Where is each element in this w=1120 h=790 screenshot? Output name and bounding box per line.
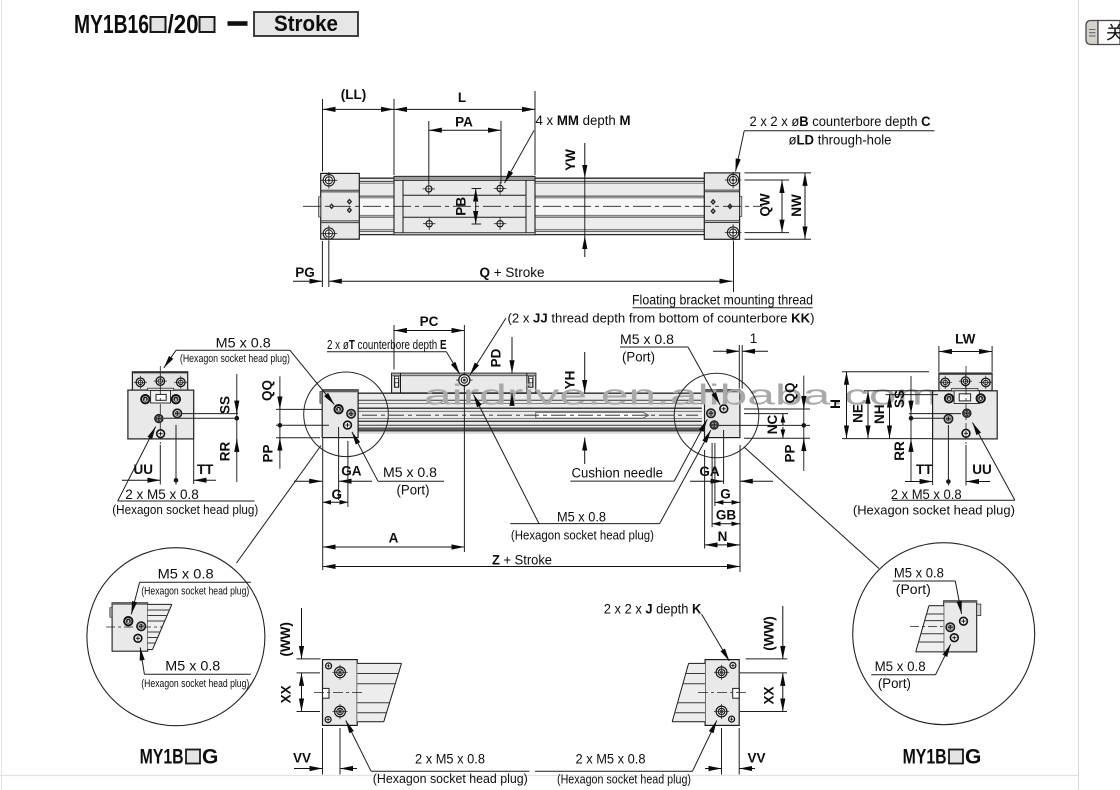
title stroke box xyxy=(254,11,358,36)
dimension H xyxy=(828,372,929,439)
cone line to bottom-right detail xyxy=(744,447,879,569)
front view slide carriage xyxy=(392,373,536,393)
svg-text:PP: PP xyxy=(260,444,275,462)
dimension QW xyxy=(745,180,790,233)
page right separator line xyxy=(1078,0,1080,790)
label 2 x M5 x 0.8 hexagon plug left with leader xyxy=(112,427,258,517)
left cap cushion needle screw xyxy=(347,409,356,418)
dimension VV left xyxy=(293,728,357,775)
dimension PC xyxy=(394,314,464,371)
svg-text:(Hexagon socket head plug): (Hexagon socket head plug) xyxy=(180,353,290,365)
svg-text:Floating bracket mounting thre: Floating bracket mounting thread xyxy=(632,293,813,308)
svg-text:Q + Stroke: Q + Stroke xyxy=(480,265,545,280)
svg-text:L: L xyxy=(458,90,466,105)
dimension PD xyxy=(489,337,512,404)
svg-text:VV: VV xyxy=(747,751,765,766)
svg-text:LW: LW xyxy=(955,332,976,347)
svg-text:M5 x 0.8: M5 x 0.8 xyxy=(165,659,220,674)
left side plug screws row xyxy=(141,395,180,403)
right dimension GB xyxy=(712,443,740,527)
label 2 x M5 x 0.8 hexagon plug right with leader xyxy=(853,423,1015,518)
carriage mounting hole MM top-right xyxy=(494,182,506,194)
right cap cushion needle screw xyxy=(706,409,715,418)
page left edge line xyxy=(1,0,3,790)
svg-text:TT: TT xyxy=(197,462,214,477)
label M5 x 0.8 (Port) left with leader xyxy=(352,432,444,498)
svg-text:GB: GB xyxy=(716,508,737,523)
left side dimension UU TT xyxy=(122,425,216,485)
svg-text:NW: NW xyxy=(789,194,804,217)
left side view body xyxy=(128,388,194,439)
left cap dimension QQ PP stack xyxy=(260,376,329,469)
caption MY1B G right xyxy=(903,746,982,769)
detail circle around left cap xyxy=(304,372,389,457)
svg-text:1: 1 xyxy=(750,331,758,346)
svg-text:PG: PG xyxy=(295,265,315,280)
svg-text:QW: QW xyxy=(758,193,773,217)
detail circle around right cap xyxy=(674,373,759,458)
svg-text:2 x M5 x 0.8: 2 x M5 x 0.8 xyxy=(576,752,646,767)
dimension (LL) xyxy=(323,87,395,109)
bottom-left end view hatch section xyxy=(357,663,401,721)
svg-text:NE: NE xyxy=(851,404,866,423)
extension lines for LL L PA xyxy=(323,91,536,184)
svg-text:Stroke: Stroke xyxy=(274,11,338,36)
right cap dimension QQ NC PP stack xyxy=(719,376,810,471)
svg-text:GA: GA xyxy=(699,464,720,479)
left side carriage screws xyxy=(134,375,188,389)
detail right cap cushion screw xyxy=(946,623,955,632)
right side view centerline xyxy=(965,366,967,444)
svg-text:PA: PA xyxy=(455,115,473,130)
top view right end cap xyxy=(704,173,742,239)
front view left head cap xyxy=(320,390,358,438)
carriage left clamp detail xyxy=(394,376,398,387)
svg-text:G: G xyxy=(332,487,343,502)
dimension LW xyxy=(939,332,992,373)
detail right cap body xyxy=(944,601,981,652)
right cap port screw top xyxy=(720,405,728,413)
svg-text:2 x øT counterbore depth E: 2 x øT counterbore depth E xyxy=(327,337,447,352)
dimension XX left xyxy=(279,673,320,712)
dimension YH xyxy=(563,352,585,464)
left side dimension SS RR stack xyxy=(164,374,239,482)
detail right cap port screw top xyxy=(960,617,968,625)
top view left end cap xyxy=(319,173,360,239)
left side cross screw xyxy=(173,409,182,418)
svg-text:PP: PP xyxy=(783,444,798,462)
left side view carriage section xyxy=(132,372,187,390)
svg-text:(Port): (Port) xyxy=(896,582,931,597)
front view right head cap xyxy=(705,390,743,438)
svg-text:M5 x 0.8: M5 x 0.8 xyxy=(875,659,926,674)
svg-text:TT: TT xyxy=(916,462,933,477)
svg-text:(Port): (Port) xyxy=(622,350,655,365)
watermark xyxy=(424,380,938,412)
bottom-right detail circle xyxy=(853,543,1035,725)
svg-text:QQ: QQ xyxy=(260,380,275,401)
svg-text:(LL): (LL) xyxy=(341,87,366,102)
right side dimension SS RR stack xyxy=(892,376,961,482)
svg-text:(Hexagon socket head plug): (Hexagon socket head plug) xyxy=(141,585,249,597)
svg-text:M5 x 0.8: M5 x 0.8 xyxy=(894,566,944,581)
carriage mounting hole MM top-left xyxy=(423,183,435,195)
detail left cap cushion screw xyxy=(137,622,146,631)
svg-text:2 x 2 x J depth K: 2 x 2 x J depth K xyxy=(604,602,702,617)
label Floating bracket mounting thread xyxy=(632,293,813,308)
front view cylinder tube xyxy=(358,393,702,433)
svg-text:øLD through-hole: øLD through-hole xyxy=(789,133,892,148)
svg-text:SS: SS xyxy=(892,390,907,408)
bottom-right end view screws xyxy=(714,662,736,722)
label oLD through-hole xyxy=(736,131,892,172)
right dimension G xyxy=(715,443,740,506)
svg-text:G: G xyxy=(720,487,731,502)
svg-text:关: 关 xyxy=(1106,23,1120,43)
svg-text:QQ: QQ xyxy=(783,382,798,403)
svg-text:G: G xyxy=(202,746,218,769)
top view slide table carriage xyxy=(394,176,535,234)
detail label M5 x 0.8 plug lower xyxy=(140,648,251,690)
svg-text:N: N xyxy=(718,529,728,544)
svg-text:UU: UU xyxy=(972,462,992,477)
right cap counterbore hole top xyxy=(725,172,742,189)
svg-text:(2 x JJ thread depth from bott: (2 x JJ thread depth from bottom of coun… xyxy=(508,311,815,326)
svg-text:(Hexagon socket head plug): (Hexagon socket head plug) xyxy=(373,771,528,786)
page bottom separator line xyxy=(0,775,1078,777)
svg-text:/20: /20 xyxy=(168,9,199,39)
svg-text:(Port): (Port) xyxy=(878,676,911,691)
label 4 x MM depth M with leader xyxy=(505,113,631,183)
left cap counterbore hole bottom xyxy=(321,225,338,242)
dimension PA xyxy=(429,115,501,131)
label 2 x oT counterbore depth E with leader xyxy=(327,337,460,374)
detail left cap body xyxy=(110,603,148,651)
detail label M5 x 0.8 port upper xyxy=(893,566,962,615)
dimension A xyxy=(323,386,465,570)
svg-text:2 x M5 x 0.8: 2 x M5 x 0.8 xyxy=(415,752,485,767)
svg-text:RR: RR xyxy=(218,442,233,462)
bottom-left end view centerline xyxy=(314,691,364,693)
label 2 x M5 x 0.8 bottom-left with leader xyxy=(346,721,530,786)
right side cross screw xyxy=(944,414,953,423)
svg-text:(WW): (WW) xyxy=(278,622,293,656)
svg-text:(Hexagon socket head plug): (Hexagon socket head plug) xyxy=(112,502,258,517)
svg-text:(Hexagon socket head plug): (Hexagon socket head plug) xyxy=(511,528,654,543)
title model number MY1B16/20 xyxy=(74,9,248,39)
detail right cap hatched tube section xyxy=(910,606,950,652)
svg-text:YH: YH xyxy=(563,371,578,390)
label 2 x JJ thread depth note with leader xyxy=(470,311,815,375)
right cap port holes (diamonds) xyxy=(710,199,732,214)
left cap counterbore hole top xyxy=(321,172,338,189)
cone line to bottom-left detail xyxy=(237,446,322,564)
svg-text:NH: NH xyxy=(872,404,887,424)
svg-text:(WW): (WW) xyxy=(761,616,776,650)
svg-text:H: H xyxy=(828,399,843,409)
dimension VV right xyxy=(705,728,766,775)
svg-text:Cushion needle: Cushion needle xyxy=(572,466,664,481)
right side dimension TT UU xyxy=(905,425,992,486)
label 2 x 2 x J depth K with leader xyxy=(604,602,730,662)
caption MY1B G left xyxy=(140,746,219,769)
svg-text:PB: PB xyxy=(454,197,469,216)
tube slot tapered white band xyxy=(536,412,649,418)
carriage mounting hole MM bottom-right xyxy=(494,218,506,230)
bottom-right end view hatch section xyxy=(672,663,705,721)
label M5 x 0.8 hexagon plug bottom-center with two leaders xyxy=(474,395,711,543)
svg-text:NC: NC xyxy=(765,415,780,435)
svg-text:(Hexagon socket head plug): (Hexagon socket head plug) xyxy=(141,678,249,690)
svg-text:M5 x 0.8: M5 x 0.8 xyxy=(158,567,214,582)
front view center dash-dot line xyxy=(362,414,698,416)
svg-text:MY1B16: MY1B16 xyxy=(74,9,149,39)
right side view carriage section xyxy=(939,373,992,391)
svg-text:MY1B: MY1B xyxy=(903,746,947,769)
left dimension GA xyxy=(294,427,372,500)
dimension YW xyxy=(563,143,585,257)
svg-text:M5 x 0.8: M5 x 0.8 xyxy=(216,336,271,351)
svg-text:2 x 2 x øB counterbore depth C: 2 x 2 x øB counterbore depth C xyxy=(750,114,931,129)
right side dark plug xyxy=(963,409,972,418)
svg-text:MY1B: MY1B xyxy=(140,746,184,769)
right side bottom plug xyxy=(962,429,970,437)
label 2 x 2 x oB counterbore depth C xyxy=(744,114,934,131)
dimension (WW) right xyxy=(746,606,788,659)
svg-text:(Hexagon socket head plug): (Hexagon socket head plug) xyxy=(853,502,1015,517)
left side view centerline xyxy=(159,366,161,444)
svg-text:GA: GA xyxy=(341,464,362,479)
dimension (WW) left xyxy=(278,608,321,659)
svg-text:(Port): (Port) xyxy=(397,483,430,498)
svg-text:2 x M5 x 0.8: 2 x M5 x 0.8 xyxy=(125,487,199,502)
bottom-right end view body xyxy=(705,660,739,726)
left cap port screw xyxy=(344,421,352,429)
right dimension N xyxy=(705,450,740,549)
dimension NE xyxy=(851,391,936,439)
detail left cap port screw xyxy=(134,634,142,642)
right cap port screw bottom xyxy=(710,421,719,430)
bottom-right end view centerline xyxy=(698,691,748,693)
dimension XX right xyxy=(740,673,787,712)
detail right cap port screw bottom xyxy=(950,634,958,642)
dimension L xyxy=(394,90,535,109)
svg-text:XX: XX xyxy=(761,686,776,704)
right side plug screws row xyxy=(945,394,985,402)
detail left cap hatched tube section xyxy=(106,604,172,649)
svg-text:VV: VV xyxy=(293,751,311,766)
detail label M5 x 0.8 plug upper xyxy=(131,567,251,615)
top view center axis dash-dot line xyxy=(303,205,762,207)
svg-text:PC: PC xyxy=(420,314,439,329)
svg-text:YW: YW xyxy=(563,149,578,171)
bottom-left end view body xyxy=(323,660,358,726)
dimension PG xyxy=(293,241,329,287)
dimension PB xyxy=(454,189,482,225)
dimension NW xyxy=(745,173,812,239)
right side carriage screws xyxy=(939,375,993,389)
bottom-left end view screws xyxy=(325,663,348,723)
left side dark plug xyxy=(155,414,164,423)
right side view body xyxy=(933,389,998,439)
browser widget tab top-right xyxy=(1086,21,1120,45)
left side bottom plug xyxy=(157,430,165,438)
dimension NH xyxy=(842,395,938,439)
dimension Z + Stroke xyxy=(323,445,740,572)
svg-text:SS: SS xyxy=(218,396,233,414)
svg-text:G: G xyxy=(965,746,981,769)
svg-text:4 x MM depth M: 4 x MM depth M xyxy=(536,113,631,128)
label M5 x 0.8 hexagon plug top with two leaders xyxy=(164,336,334,405)
label Cushion needle with leader xyxy=(570,419,707,481)
label 2 x M5 x 0.8 bottom-right with leader xyxy=(535,721,717,787)
svg-text:PD: PD xyxy=(489,348,504,367)
carriage right clamp detail xyxy=(529,376,533,387)
left cap port holes (diamonds) xyxy=(329,199,352,214)
left dimension G xyxy=(323,441,348,507)
carriage mounting hole MM bottom-left xyxy=(423,218,435,230)
top view cylinder tube body xyxy=(359,178,704,235)
bottom-left detail circle xyxy=(87,548,265,726)
dimension 1 (cap edge offset) xyxy=(713,331,768,389)
svg-text:Z + Stroke: Z + Stroke xyxy=(492,553,552,568)
svg-text:M5 x 0.8: M5 x 0.8 xyxy=(557,510,606,525)
detail left cap plug screw xyxy=(124,617,132,625)
right dimension GA xyxy=(690,430,773,484)
svg-text:M5 x 0.8: M5 x 0.8 xyxy=(620,332,674,347)
detail label M5 x 0.8 port lower xyxy=(871,644,950,691)
dimension Q + Stroke xyxy=(329,241,734,292)
svg-text:A: A xyxy=(389,531,399,546)
svg-text:M5 x 0.8: M5 x 0.8 xyxy=(383,465,437,480)
svg-text:XX: XX xyxy=(279,685,294,703)
svg-text:(Hexagon socket head plug): (Hexagon socket head plug) xyxy=(557,771,691,786)
label M5 x 0.8 (Port) right with leader xyxy=(620,332,720,405)
left cap hexagon socket head plug xyxy=(334,405,342,413)
oT counterbore screw on carriage xyxy=(456,372,472,388)
right cap counterbore hole bottom xyxy=(725,224,742,241)
svg-text:RR: RR xyxy=(892,441,907,461)
